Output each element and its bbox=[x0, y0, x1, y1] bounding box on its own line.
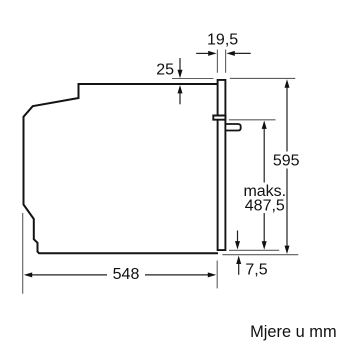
extension line: door top (right of door, for 595) bbox=[230, 77, 295, 79]
dimension 19,5 left arrow bbox=[24, 51, 290, 278]
dimension 25 upper arrow bbox=[179, 58, 181, 71]
door top flange tab bbox=[213, 116, 225, 120]
dimension 7,5 lower arrow bbox=[238, 264, 240, 275]
dimension 19,5 right arrow bbox=[234, 52, 251, 54]
extension line: door face right (for 19,5) bbox=[225, 50, 227, 73]
dimension 7,5 upper arrow bbox=[237, 231, 239, 243]
extension line: door bottom (for 7,5 and maks) bbox=[229, 249, 279, 251]
svg-text:7,5: 7,5 bbox=[245, 262, 267, 279]
dimension maks 487,5 line with arrows bbox=[263, 129, 265, 183]
svg-text:595: 595 bbox=[273, 152, 300, 169]
extension line: left body edge (for 548) bbox=[22, 213, 24, 294]
extension line: flange bottom (for maks 487,5) bbox=[229, 119, 276, 121]
extension line: door top (left of door, for 25) bbox=[172, 78, 213, 80]
dimension 25 lower arrow bbox=[179, 93, 181, 104]
svg-text:Mjere u mm: Mjere u mm bbox=[250, 323, 337, 341]
svg-text:487,5: 487,5 bbox=[245, 197, 285, 214]
oven body outline bbox=[24, 84, 219, 253]
svg-text:25: 25 bbox=[156, 62, 174, 79]
dimension 548 line with arrows bbox=[31, 274, 107, 276]
extension line: door face left (for 19,5) bbox=[216, 50, 218, 73]
extension line: door front (for 548) bbox=[216, 261, 218, 289]
door handle bbox=[225, 124, 240, 131]
oven front door panel bbox=[218, 80, 226, 250]
extension line: chassis bottom (for 7,5 and 595) bbox=[222, 254, 298, 256]
svg-text:548: 548 bbox=[113, 266, 140, 283]
svg-text:19,5: 19,5 bbox=[207, 32, 238, 49]
dimension 595 line with arrows bbox=[286, 88, 288, 152]
